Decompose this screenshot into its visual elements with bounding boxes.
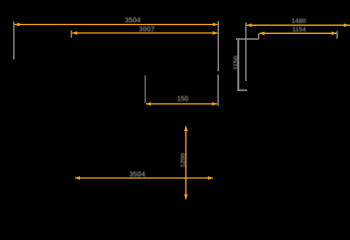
dimension line D6 (3504 bottom) <box>75 177 213 179</box>
extension tick right of dim 1154 <box>336 31 338 39</box>
arrow D2 right <box>213 31 218 35</box>
arrow D7 bottom <box>184 194 188 199</box>
extension line left of dim 1480 <box>245 22 247 81</box>
svg-text:3504: 3504 <box>125 16 141 25</box>
U profile left vertical <box>144 75 146 103</box>
svg-text:1200: 1200 <box>180 153 187 168</box>
svg-text:3504: 3504 <box>129 169 145 178</box>
arrow D4 left <box>260 31 265 35</box>
extension line right of dim 3504 (upper segment) <box>217 21 219 71</box>
svg-text:1154: 1154 <box>292 27 306 34</box>
arrow D6 right <box>208 176 213 180</box>
extension line left of dim 3504 <box>13 22 15 60</box>
dimension line D3 (1480) <box>247 24 350 26</box>
dimension line D7 vertical (1200) <box>185 126 187 199</box>
svg-text:3007: 3007 <box>139 25 155 34</box>
arrow D1 right <box>213 23 218 27</box>
svg-text:1480: 1480 <box>291 18 306 25</box>
arrow D4 right <box>332 31 337 35</box>
arrow D5 left <box>146 102 151 106</box>
profile top horizontal <box>236 38 259 40</box>
arrow D7 top <box>184 126 188 131</box>
extension tick left of dim 3007 <box>70 30 72 37</box>
arrow D5 right <box>212 102 217 106</box>
dimension line D4 (1154) <box>260 32 337 34</box>
extension line right (lower segment, right side of U profile) <box>217 75 219 107</box>
dimension line D5 (150) <box>146 103 217 105</box>
svg-text:1150: 1150 <box>233 56 240 71</box>
svg-text:150: 150 <box>177 96 189 103</box>
arrow D3 right <box>344 23 349 27</box>
arrow D3 left <box>247 23 252 27</box>
arrow D1 left <box>15 23 20 27</box>
profile right rise to dim 1154 <box>258 33 260 39</box>
dimension line D1 (3504) <box>15 24 218 26</box>
arrow D6 left <box>75 176 80 180</box>
arrow D2 left <box>72 31 77 35</box>
dimension line D2 (3007) <box>72 32 218 34</box>
profile left vertical <box>237 39 239 91</box>
profile bottom horizontal <box>238 89 248 91</box>
